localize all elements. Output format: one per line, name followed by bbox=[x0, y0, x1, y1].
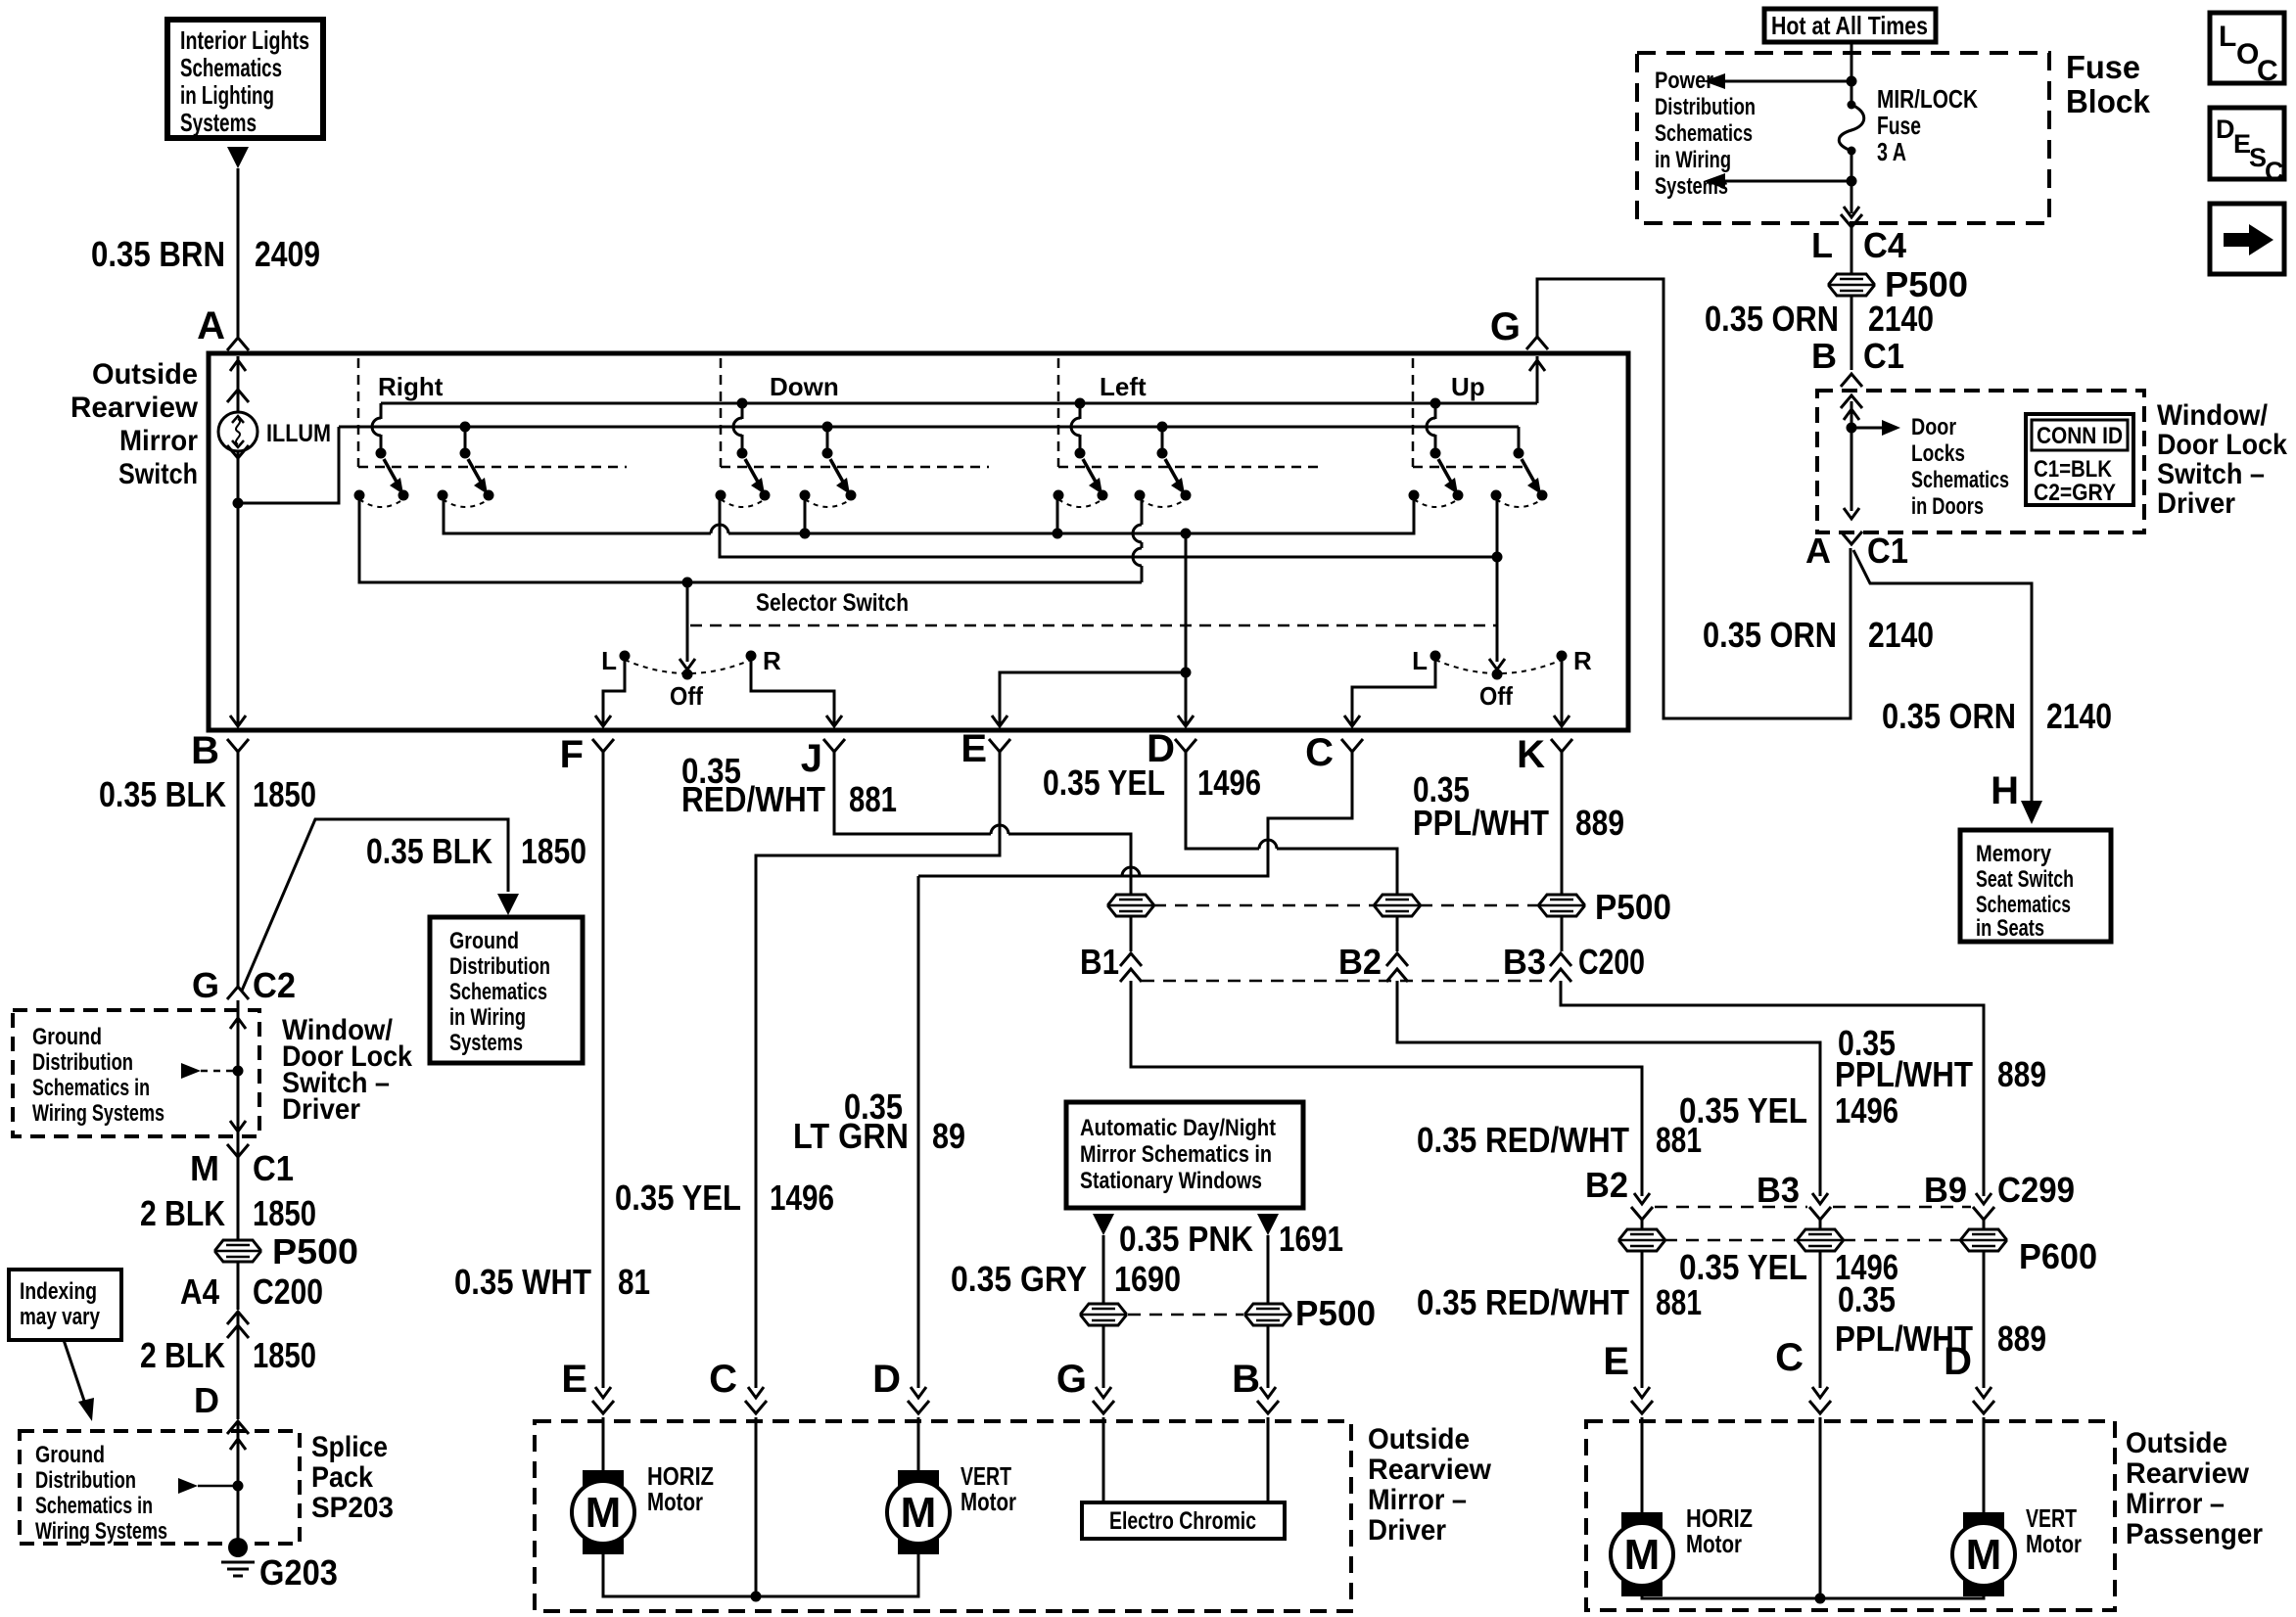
label passenger vert motor bbox=[2026, 1503, 2082, 1558]
svg-text:Mirror Schematics in: Mirror Schematics in bbox=[1080, 1141, 1272, 1168]
svg-text:Switch –: Switch – bbox=[2157, 458, 2265, 490]
left selector contacts bbox=[620, 651, 757, 680]
svg-text:881: 881 bbox=[849, 779, 897, 819]
connector B9 C299 bbox=[1924, 1170, 2075, 1220]
Right pole2 contacts bbox=[438, 490, 494, 508]
wire net y569 bbox=[720, 495, 1497, 557]
dashed boundary Right group bbox=[358, 358, 627, 467]
svg-text:881: 881 bbox=[1656, 1282, 1702, 1322]
svg-text:0.35 WHT: 0.35 WHT bbox=[454, 1262, 591, 1302]
svg-text:in Wiring: in Wiring bbox=[1655, 147, 1731, 173]
label 0.35 RED/WHT 881 right bbox=[1417, 1120, 1702, 1160]
svg-text:Distribution: Distribution bbox=[35, 1467, 136, 1494]
wire net y595 bbox=[359, 495, 1142, 582]
C299 dashed line bbox=[1655, 1206, 1971, 1209]
svg-text:L: L bbox=[1811, 225, 1833, 265]
svg-text:Locks: Locks bbox=[1911, 440, 1965, 467]
lamp ILLUM bbox=[218, 412, 258, 451]
label 0.35 RED/WHT 881 bbox=[681, 751, 897, 819]
right selector L wire to C bbox=[1344, 656, 1435, 726]
LOC icon box bbox=[2210, 13, 2284, 87]
svg-text:K: K bbox=[1517, 733, 1545, 776]
wire M to P500 bbox=[237, 1145, 240, 1240]
svg-text:G203: G203 bbox=[259, 1552, 338, 1593]
arrow to door locks text bbox=[1851, 420, 1900, 436]
connector P500 on J wire bbox=[1108, 895, 1153, 916]
label H bbox=[1991, 769, 2019, 812]
svg-text:Fuse: Fuse bbox=[2066, 49, 2140, 85]
wire passenger pin C to common bbox=[1815, 1417, 1826, 1604]
connector B2 C299 bbox=[1585, 1165, 1653, 1220]
svg-text:Automatic Day/Night: Automatic Day/Night bbox=[1080, 1115, 1276, 1141]
Right pole1 arm bbox=[384, 459, 403, 494]
svg-text:in Seats: in Seats bbox=[1976, 915, 2044, 942]
svg-text:Off: Off bbox=[1479, 681, 1513, 711]
Left pole1 contacts bbox=[1054, 490, 1108, 508]
connector B3 C299 bbox=[1757, 1170, 1831, 1220]
wire P500 to B C1 bbox=[1851, 296, 1853, 370]
svg-text:C4: C4 bbox=[1863, 225, 1906, 265]
Right pole2 riser bbox=[460, 422, 471, 451]
wire C to LT GRN drop bbox=[918, 759, 1352, 876]
terminal G chevron bbox=[1526, 337, 1548, 349]
rail 2 bbox=[339, 426, 1519, 429]
terminal A label bbox=[197, 304, 225, 347]
Right pole2 arm bbox=[468, 459, 488, 494]
label 0.35 RED/WHT 881 below bbox=[1417, 1282, 1702, 1322]
svg-text:Rearview: Rearview bbox=[1368, 1454, 1492, 1486]
wire through door lock box bbox=[1841, 395, 1862, 519]
svg-text:G: G bbox=[1056, 1358, 1087, 1401]
svg-text:0.35 ORN: 0.35 ORN bbox=[1703, 615, 1837, 655]
svg-text:C299: C299 bbox=[1997, 1170, 2075, 1210]
svg-text:Rearview: Rearview bbox=[2126, 1457, 2250, 1490]
svg-text:Schematics: Schematics bbox=[1655, 120, 1753, 147]
Down pole2 arm bbox=[830, 459, 850, 494]
svg-text:Motor: Motor bbox=[961, 1487, 1016, 1516]
svg-text:Door Lock: Door Lock bbox=[2157, 429, 2287, 461]
label 0.35 ORN 2140 mid bbox=[1703, 615, 1934, 655]
arrow icon box bbox=[2210, 204, 2284, 274]
automatic day/night mirror box bbox=[1066, 1102, 1303, 1208]
svg-text:M: M bbox=[190, 1148, 219, 1188]
wire A C1 to G bbox=[1537, 279, 1851, 718]
svg-text:B3: B3 bbox=[1757, 1170, 1800, 1210]
Up pole2 pivot bbox=[1514, 448, 1524, 459]
label window door lock switch driver (left) bbox=[282, 1014, 412, 1126]
label 0.35 BLK 1850 branch bbox=[366, 831, 586, 871]
svg-text:C: C bbox=[1775, 1336, 1804, 1379]
svg-text:D: D bbox=[872, 1358, 901, 1401]
right selector contacts bbox=[1430, 651, 1568, 680]
wire driver pin G to EC bbox=[1102, 1417, 1105, 1502]
svg-text:Distribution: Distribution bbox=[32, 1049, 133, 1076]
wire to passenger pin D bbox=[1944, 1251, 1994, 1413]
wire into driver vert motor bbox=[917, 1417, 920, 1470]
connector B3 C200 bbox=[1503, 942, 1645, 982]
svg-text:Hot at All Times: Hot at All Times bbox=[1771, 11, 1928, 40]
wires into C200 bbox=[1131, 916, 1562, 951]
svg-text:Outside: Outside bbox=[2126, 1427, 2227, 1459]
svg-text:0.35 GRY: 0.35 GRY bbox=[951, 1259, 1087, 1299]
svg-text:Stationary Windows: Stationary Windows bbox=[1080, 1168, 1262, 1194]
label 0.35 YEL 1496 below P600 bbox=[1679, 1247, 1898, 1287]
svg-text:PPL/WHT: PPL/WHT bbox=[1835, 1054, 1973, 1094]
svg-text:P500: P500 bbox=[1295, 1293, 1376, 1333]
terminal K bbox=[1517, 733, 1572, 776]
connector M C1 bbox=[190, 1144, 294, 1188]
connector P500 left bbox=[215, 1231, 358, 1271]
terminal F bbox=[560, 733, 614, 776]
junction dot ILLUM bbox=[233, 498, 244, 509]
label Down bbox=[770, 372, 839, 401]
stub up-pole2 contact bbox=[1496, 495, 1499, 557]
wire K to P500 bbox=[1561, 759, 1564, 895]
svg-text:1496: 1496 bbox=[1197, 762, 1261, 803]
svg-text:Indexing: Indexing bbox=[20, 1278, 97, 1305]
svg-text:M: M bbox=[1624, 1531, 1661, 1579]
svg-text:Distribution: Distribution bbox=[1655, 94, 1756, 120]
svg-text:0.35 BRN: 0.35 BRN bbox=[91, 234, 225, 274]
svg-text:Interior Lights: Interior Lights bbox=[180, 25, 309, 55]
label 0.35 WHT 81 bbox=[454, 1262, 650, 1302]
svg-text:Fuse: Fuse bbox=[1877, 111, 1921, 140]
svg-text:Schematics in: Schematics in bbox=[32, 1075, 150, 1101]
wire into driver horiz motor bbox=[602, 1417, 605, 1470]
svg-text:L: L bbox=[601, 646, 617, 675]
Down pole1 riser bbox=[733, 398, 748, 451]
svg-text:Ground: Ground bbox=[449, 928, 519, 954]
dashed boundary Left group bbox=[1058, 358, 1324, 467]
label outside rearview mirror passenger bbox=[2126, 1427, 2263, 1550]
Down pole2 contacts bbox=[800, 490, 857, 508]
wire B1 to passenger E bbox=[1131, 981, 1642, 1188]
Up pole2 arm bbox=[1522, 459, 1541, 494]
svg-text:E: E bbox=[561, 1358, 587, 1401]
label power distribution schematics bbox=[1655, 68, 1756, 200]
svg-text:C: C bbox=[2257, 55, 2278, 87]
wire driver pin C to common bbox=[751, 1417, 762, 1602]
connector P500 PNK bbox=[1245, 1293, 1376, 1333]
Down pole2 pivot bbox=[822, 448, 833, 459]
svg-text:A: A bbox=[1805, 531, 1831, 571]
junction dots y545 bbox=[800, 529, 1192, 539]
wire to driver pin G bbox=[1056, 1325, 1114, 1413]
ground distribution dashed box left bbox=[13, 1010, 259, 1136]
label MIR/LOCK fuse 3A bbox=[1877, 84, 1978, 166]
pin C driver label bbox=[709, 1358, 737, 1401]
pin E driver label bbox=[561, 1358, 587, 1401]
passenger horiz motor bbox=[1611, 1512, 1673, 1596]
arrow ground box to wire bbox=[181, 1063, 244, 1079]
svg-text:B: B bbox=[191, 729, 219, 772]
terminal G label bbox=[1490, 305, 1521, 348]
wire to driver pin B bbox=[1232, 1325, 1279, 1413]
wires to P600 bbox=[1642, 1220, 1984, 1229]
svg-text:0.35 YEL: 0.35 YEL bbox=[1679, 1247, 1807, 1287]
svg-text:O: O bbox=[2236, 38, 2259, 70]
svg-text:LT GRN: LT GRN bbox=[793, 1116, 909, 1156]
terminal C bbox=[1305, 731, 1363, 774]
conn id table bbox=[2026, 414, 2133, 506]
svg-text:P500: P500 bbox=[272, 1231, 358, 1271]
svg-text:0.35 YEL: 0.35 YEL bbox=[1043, 762, 1165, 803]
svg-text:L: L bbox=[2219, 21, 2236, 53]
svg-text:B3: B3 bbox=[1503, 942, 1546, 982]
Left pole1 riser bbox=[1071, 398, 1086, 451]
svg-text:Motor: Motor bbox=[1686, 1529, 1742, 1558]
svg-text:1691: 1691 bbox=[1279, 1219, 1343, 1259]
svg-text:D: D bbox=[2216, 115, 2235, 144]
svg-text:A4: A4 bbox=[180, 1271, 219, 1312]
memory seat switch box bbox=[1960, 830, 2111, 942]
Up pole1 arm bbox=[1438, 459, 1458, 494]
svg-text:R: R bbox=[763, 646, 781, 675]
svg-text:in Lighting: in Lighting bbox=[180, 80, 274, 110]
svg-text:Mirror –: Mirror – bbox=[2126, 1488, 2225, 1520]
wire A into box bbox=[227, 356, 249, 412]
driver horiz motor bbox=[572, 1470, 634, 1554]
fuse MIR/LOCK bbox=[1839, 81, 1864, 156]
G riser bbox=[1529, 356, 1545, 403]
svg-text:C1: C1 bbox=[1863, 336, 1904, 376]
svg-text:2409: 2409 bbox=[255, 234, 320, 274]
outside rearview mirror passenger dashed box bbox=[1586, 1421, 2115, 1610]
Left pole2 pivot bbox=[1157, 448, 1168, 459]
svg-text:M: M bbox=[586, 1489, 622, 1537]
svg-text:1496: 1496 bbox=[1835, 1090, 1898, 1131]
arrow splice box to wire bbox=[178, 1478, 244, 1494]
wire into passenger vert motor bbox=[1983, 1417, 1986, 1512]
C200 dashed line bbox=[1142, 980, 1550, 983]
electro chromic box bbox=[1082, 1502, 1285, 1539]
svg-text:Driver: Driver bbox=[1368, 1514, 1446, 1547]
Left pole2 arm bbox=[1165, 459, 1185, 494]
junction dot fuse top bbox=[1847, 76, 1857, 87]
svg-text:C2=GRY: C2=GRY bbox=[2034, 480, 2116, 506]
svg-text:Window/: Window/ bbox=[2157, 399, 2269, 432]
terminal D bbox=[1147, 727, 1196, 770]
label fuse block bbox=[2066, 49, 2151, 119]
wire ILLUM junction to rail2 bbox=[238, 427, 339, 503]
terminal J bbox=[801, 737, 845, 780]
svg-text:Motor: Motor bbox=[647, 1487, 703, 1516]
ground G203 bbox=[221, 1538, 338, 1593]
stub left-pole1 contact bbox=[1056, 495, 1059, 533]
svg-text:Schematics: Schematics bbox=[180, 53, 282, 82]
wire 0.35 BRN 2409 bbox=[237, 168, 240, 337]
Down pole1 contacts bbox=[716, 490, 771, 508]
wire D to B2 bbox=[1186, 759, 1397, 895]
label driver horiz motor bbox=[647, 1461, 714, 1516]
wire ILLUM to junction bbox=[237, 451, 240, 503]
svg-text:C1: C1 bbox=[1867, 531, 1908, 571]
label passenger horiz motor bbox=[1686, 1503, 1753, 1558]
svg-text:C200: C200 bbox=[253, 1271, 323, 1312]
svg-text:Seat Switch: Seat Switch bbox=[1976, 866, 2074, 893]
Down pole1 pivot bbox=[737, 448, 748, 459]
svg-text:M: M bbox=[1966, 1531, 2002, 1579]
wire net y545 bbox=[444, 495, 1414, 533]
wire B2 to passenger C bbox=[1397, 981, 1820, 1188]
arrow to power distribution top bbox=[1704, 73, 1851, 89]
connector row P500 dashed bbox=[1153, 904, 1538, 907]
label Left bbox=[1100, 372, 1147, 401]
wire through dashed box bbox=[230, 1000, 246, 1145]
Up pole1 pivot bbox=[1430, 448, 1441, 459]
svg-text:P500: P500 bbox=[1595, 887, 1671, 927]
label Up bbox=[1451, 372, 1485, 401]
svg-text:R: R bbox=[1573, 646, 1592, 675]
Right pole1 contacts bbox=[354, 490, 409, 508]
svg-text:PPL/WHT: PPL/WHT bbox=[1413, 803, 1549, 843]
wire driver pin B to EC bbox=[1267, 1417, 1270, 1502]
svg-text:Schematics: Schematics bbox=[449, 979, 547, 1005]
P500 GRY/PNK dashed bbox=[1128, 1314, 1243, 1317]
label driver vert motor bbox=[961, 1461, 1016, 1516]
svg-text:Right: Right bbox=[378, 372, 444, 401]
svg-text:RED/WHT: RED/WHT bbox=[681, 779, 825, 819]
Left pole2 riser bbox=[1157, 422, 1168, 451]
svg-text:889: 889 bbox=[1575, 803, 1624, 843]
label door locks schematics bbox=[1911, 414, 2009, 520]
svg-text:89: 89 bbox=[932, 1116, 965, 1156]
label 0.35 ORN 2140 H bbox=[1882, 696, 2112, 736]
connector B2 C200 bbox=[1338, 942, 1408, 982]
svg-text:Wiring Systems: Wiring Systems bbox=[32, 1100, 164, 1127]
label 0.35 GRY 1690 bbox=[951, 1259, 1181, 1299]
label 0.35 BRN 2409 bbox=[91, 234, 320, 274]
svg-text:C200: C200 bbox=[1578, 942, 1645, 982]
driver vert motor bbox=[887, 1470, 950, 1554]
connector P500 on K wire bbox=[1539, 887, 1671, 927]
svg-text:0.35 RED/WHT: 0.35 RED/WHT bbox=[1417, 1120, 1629, 1160]
svg-text:D: D bbox=[194, 1380, 219, 1420]
svg-text:Power: Power bbox=[1655, 68, 1713, 94]
svg-text:E: E bbox=[961, 727, 987, 770]
svg-text:0.35 ORN: 0.35 ORN bbox=[1882, 696, 2016, 736]
svg-text:889: 889 bbox=[1997, 1054, 2046, 1094]
svg-text:2140: 2140 bbox=[2046, 696, 2112, 736]
label 0.35 PPL/WHT 889 right bbox=[1835, 1023, 2046, 1094]
svg-text:Up: Up bbox=[1451, 372, 1485, 401]
wire to passenger pin C bbox=[1775, 1251, 1831, 1413]
svg-text:2 BLK: 2 BLK bbox=[140, 1335, 225, 1375]
wire B to GC2 bbox=[237, 759, 240, 987]
label 0.35 YEL 1496 bbox=[1043, 762, 1261, 803]
svg-text:Off: Off bbox=[670, 681, 703, 711]
left selector L wire to F bbox=[595, 656, 625, 726]
driver mirror common wire bbox=[603, 1554, 918, 1596]
svg-text:C: C bbox=[2265, 157, 2284, 186]
svg-text:B1: B1 bbox=[1080, 942, 1119, 982]
outside rearview mirror driver dashed box bbox=[535, 1421, 1351, 1611]
svg-text:in Wiring: in Wiring bbox=[449, 1004, 526, 1031]
connector P500 GRY bbox=[1081, 1304, 1126, 1325]
svg-text:SP203: SP203 bbox=[311, 1492, 394, 1524]
label selector switch bbox=[756, 589, 909, 617]
svg-text:0.35 YEL: 0.35 YEL bbox=[615, 1178, 741, 1218]
label 0.35 BLK 1850 bbox=[99, 774, 316, 814]
svg-text:in Doors: in Doors bbox=[1911, 493, 1984, 520]
svg-text:E: E bbox=[1603, 1340, 1629, 1383]
svg-text:Schematics: Schematics bbox=[1976, 892, 2071, 918]
svg-text:2140: 2140 bbox=[1868, 615, 1934, 655]
ground distribution schematics box (solid) bbox=[430, 917, 583, 1063]
svg-text:Driver: Driver bbox=[282, 1093, 360, 1126]
connector A C1 bbox=[1805, 531, 1908, 571]
svg-text:H: H bbox=[1991, 769, 2019, 812]
DESC icon box bbox=[2210, 108, 2284, 186]
interior lights schematic reference box bbox=[167, 20, 323, 138]
hot at all times box bbox=[1764, 9, 1936, 42]
junction dot y569 bbox=[1492, 552, 1503, 563]
right selector labels bbox=[1412, 646, 1592, 711]
Down pole2 riser bbox=[822, 422, 833, 451]
svg-text:Memory: Memory bbox=[1976, 841, 2052, 867]
svg-text:M: M bbox=[901, 1489, 937, 1537]
svg-text:0.35 BLK: 0.35 BLK bbox=[99, 774, 226, 814]
svg-text:G: G bbox=[1490, 305, 1521, 348]
passenger vert motor bbox=[1952, 1512, 2015, 1596]
arrow H bbox=[2021, 801, 2042, 824]
branch 0.35 BLK diagonal bbox=[242, 819, 508, 991]
wire E to YEL drop bbox=[745, 759, 1000, 1413]
label 0.35 PNK 1691 bbox=[1119, 1219, 1343, 1259]
label window door lock switch driver (right) bbox=[2157, 399, 2287, 520]
indexing may vary box bbox=[9, 1270, 121, 1340]
svg-text:C: C bbox=[709, 1358, 737, 1401]
svg-text:1850: 1850 bbox=[253, 1193, 316, 1233]
label Right bbox=[378, 372, 444, 401]
outside rearview mirror switch box bbox=[209, 353, 1628, 730]
svg-text:CONN ID: CONN ID bbox=[2037, 423, 2123, 449]
Right pole1 riser bbox=[372, 403, 381, 450]
wire to passenger pin E bbox=[1603, 1251, 1653, 1413]
Left pole1 arm bbox=[1083, 459, 1102, 494]
svg-text:Passenger: Passenger bbox=[2126, 1518, 2263, 1550]
svg-text:Motor: Motor bbox=[2026, 1529, 2082, 1558]
svg-text:0.35 PNK: 0.35 PNK bbox=[1119, 1219, 1253, 1259]
svg-text:B: B bbox=[1232, 1358, 1260, 1401]
left selector feed arrow bbox=[679, 582, 695, 670]
svg-text:B9: B9 bbox=[1924, 1170, 1967, 1210]
fuse block dashed box bbox=[1637, 53, 2049, 223]
svg-text:Electro Chromic: Electro Chromic bbox=[1109, 1507, 1256, 1535]
label 0.35 YEL 1496 driver bbox=[615, 1178, 834, 1218]
svg-text:Rearview: Rearview bbox=[70, 392, 199, 424]
splice pack dashed box bbox=[20, 1431, 300, 1545]
svg-text:Distribution: Distribution bbox=[449, 953, 550, 980]
svg-text:2140: 2140 bbox=[1868, 299, 1934, 339]
svg-text:Driver: Driver bbox=[2157, 487, 2235, 520]
selector switch dashed line bbox=[690, 624, 1497, 627]
arrow day/night to PNK wire bbox=[1257, 1214, 1279, 1235]
arrow to power distribution bottom bbox=[1704, 173, 1851, 189]
label 0.35 PPL/WHT 889 bbox=[1413, 769, 1624, 843]
connector G C2 bbox=[192, 965, 296, 1005]
svg-text:Door: Door bbox=[1911, 414, 1956, 440]
svg-text:1690: 1690 bbox=[1114, 1259, 1181, 1299]
connector B1 C200 bbox=[1080, 942, 1142, 982]
label 0.35 YEL 1496 right bbox=[1679, 1090, 1898, 1131]
label 2 BLK 1850 second bbox=[140, 1335, 316, 1375]
junction dot fuse bottom bbox=[1847, 176, 1857, 187]
wire F to driver mirror E bbox=[592, 759, 614, 1413]
svg-text:P600: P600 bbox=[2019, 1236, 2097, 1276]
svg-text:Systems: Systems bbox=[449, 1030, 523, 1056]
Right pole2 pivot bbox=[460, 448, 471, 459]
